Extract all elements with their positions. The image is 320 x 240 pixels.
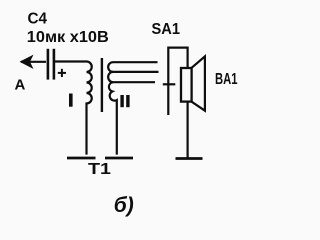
svg-text:C4: C4	[28, 11, 48, 28]
transformer T1 primary winding I	[87, 62, 92, 155]
wire capacitor to transformer primary	[55, 60, 87, 62]
ground (speaker)	[176, 157, 203, 160]
capacitor polarity +	[58, 69, 66, 77]
svg-text:BA1: BA1	[215, 71, 238, 88]
speaker BA1 horn	[192, 56, 205, 110]
svg-text:A: A	[15, 77, 26, 94]
winding II label	[120, 95, 123, 107]
switch SA1 contact tick	[163, 83, 176, 85]
ground (secondary)	[105, 157, 133, 160]
capacitor C4	[48, 49, 54, 80]
node A arrow	[21, 61, 46, 63]
svg-text:SA1: SA1	[152, 21, 181, 38]
winding I label	[69, 94, 73, 107]
transformer T1 secondary winding II	[108, 62, 158, 154]
svg-text:T1: T1	[88, 161, 111, 178]
switch SA1 wire to speaker	[168, 48, 187, 115]
transformer core	[101, 58, 103, 112]
wire speaker to ground	[187, 102, 189, 158]
ground (primary)	[67, 157, 96, 160]
svg-text:10мк х10В: 10мк х10В	[27, 29, 109, 46]
svg-text:б): б)	[114, 194, 134, 217]
speaker BA1 body	[181, 68, 192, 102]
